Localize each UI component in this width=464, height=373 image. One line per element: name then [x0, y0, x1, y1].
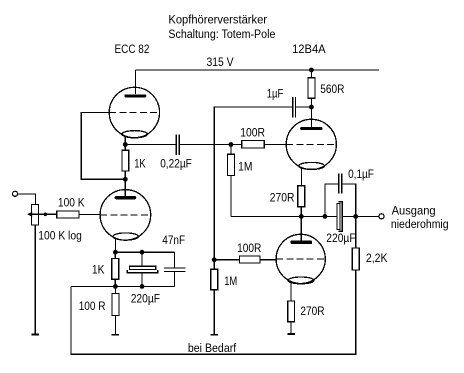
triode V1b grid (dashed) — [100, 214, 151, 216]
triode V1b ECC82 lower-left: envelope — [100, 190, 151, 241]
triode V1b anode bar — [115, 196, 137, 199]
wire 0,22µF to 100R — [180, 144, 242, 146]
node V2 cathode / V3 anode — [299, 214, 304, 219]
wire cathode node across to 47nF — [115, 252, 174, 268]
resistor 100 K (series grid) — [57, 211, 79, 218]
wire bei Bedarf loop — [71, 270, 356, 354]
node 220µF left — [323, 214, 328, 219]
node A (V1a cathode) — [123, 142, 128, 147]
wire V1b anode lead — [124, 179, 126, 196]
resistor 100R (lower grid stopper) — [240, 256, 260, 263]
wire V1a grid to node B (SRPP connection) — [81, 113, 125, 180]
wire V2 cathode lead — [300, 168, 302, 186]
triode V2 anode bar — [300, 127, 322, 130]
node B (V1b anode / 1K bottom) — [123, 177, 128, 182]
input terminal — [12, 191, 17, 196]
triode V2 12B4A upper-right: envelope — [286, 119, 336, 169]
svg-text:1K: 1K — [92, 263, 105, 277]
resistor 2,2K — [352, 216, 359, 270]
wire V1b cathode lead — [114, 239, 116, 253]
wire V1a cathode lead — [124, 137, 126, 144]
node 1M upper tap — [229, 142, 234, 147]
node 220µF(bl) top — [140, 250, 145, 255]
svg-text:47nF: 47nF — [162, 233, 185, 247]
ground below 270R — [287, 333, 294, 335]
svg-text:1M: 1M — [238, 159, 252, 173]
svg-text:220µF: 220µF — [131, 292, 160, 306]
svg-text:12B4A: 12B4A — [292, 42, 326, 56]
svg-text:100 R: 100 R — [79, 299, 106, 313]
svg-text:1µF: 1µF — [267, 87, 284, 101]
svg-text:100 K log: 100 K log — [38, 229, 82, 243]
wire V3 cathode lead — [290, 283, 292, 301]
ground below 100 R — [112, 334, 119, 336]
triode V1b cathode — [113, 233, 138, 240]
resistor 1K (upper, SRPP) — [122, 145, 129, 180]
svg-text:Ausgang: Ausgang — [392, 203, 436, 217]
node 560R bottom / V2 anode — [309, 105, 314, 110]
wire V1a anode lead — [135, 70, 137, 94]
capacitor 220µF (cathode bypass, electrolytic) — [127, 252, 158, 286]
capacitor 47nF — [164, 268, 185, 286]
triode V1a ECC82 upper-left: envelope — [109, 87, 159, 137]
potentiometer 100K log — [27, 204, 57, 225]
svg-text:100 K: 100 K — [58, 195, 85, 209]
resistor 1M (upper, bootstrap grid leak) — [228, 145, 235, 217]
svg-text:ECC 82: ECC 82 — [115, 42, 150, 56]
wire node to 100R lower — [214, 259, 239, 261]
svg-text:100R: 100R — [237, 241, 261, 255]
svg-text:bei Bedarf: bei Bedarf — [188, 341, 237, 355]
wire input to potentiometer — [17, 194, 35, 205]
node 100R top — [113, 284, 118, 289]
svg-text:2,2K: 2,2K — [366, 251, 388, 265]
resistor 270R (upper cathode) — [298, 186, 305, 217]
svg-text:270R: 270R — [300, 304, 324, 318]
capacitor 0,1µF — [339, 173, 342, 193]
wire node A to coupling cap — [125, 144, 176, 146]
svg-text:220µF: 220µF — [326, 231, 355, 245]
wire 100R to V3 grid — [260, 259, 277, 261]
svg-text:100R: 100R — [240, 126, 265, 140]
wire pot to ground — [34, 225, 36, 335]
ground below pot — [32, 334, 39, 336]
ground below 1M — [211, 334, 218, 336]
triode V1a cathode — [122, 131, 147, 138]
wire 100R to V2 grid — [264, 144, 286, 146]
node 220µF(bl) bottom — [140, 284, 145, 289]
svg-text:270R: 270R — [270, 191, 295, 205]
wire bottom node row — [71, 285, 174, 287]
capacitor 0,22µF — [176, 134, 179, 155]
node lower grid — [212, 257, 217, 262]
svg-text:Kopfhörerverstärker: Kopfhörerverstärker — [168, 12, 267, 26]
capacitor 1µF — [293, 97, 296, 117]
svg-text:0,1µF: 0,1µF — [348, 167, 374, 181]
node 560R top — [309, 68, 314, 73]
triode V2 grid (dashed) — [286, 143, 336, 145]
wire V2 anode lead — [310, 107, 312, 127]
resistor 560R — [308, 70, 315, 107]
svg-text:1K: 1K — [134, 156, 146, 170]
wire output rail — [231, 215, 379, 217]
resistor 1K (lower cathode bias) — [112, 252, 119, 286]
triode V1a anode bar — [124, 94, 146, 97]
svg-text:560R: 560R — [320, 82, 344, 96]
svg-text:315 V: 315 V — [207, 55, 235, 69]
triode V3 grid (dashed) — [276, 258, 325, 260]
resistor 100R (upper grid stopper) — [242, 141, 265, 148]
wire phase drive rail (1µF to lower grid node) — [214, 107, 292, 260]
triode V1a grid (dashed) — [109, 112, 159, 114]
resistor 1M (lower grid leak) — [211, 260, 218, 335]
triode V3 cathode — [288, 277, 314, 284]
node 220µF right — [353, 214, 358, 219]
wire 100K to V1b grid — [79, 214, 100, 216]
output terminal — [379, 214, 384, 219]
triode V3 12B4A lower-right: envelope — [276, 234, 325, 284]
wire 1µF to 560R node — [296, 106, 311, 108]
capacitor 220µF output (electrolytic) — [337, 202, 343, 232]
triode V2 cathode — [299, 162, 325, 169]
resistor 270R (lower cathode) — [288, 301, 295, 334]
wire 0,1µF bypass loop — [325, 184, 356, 217]
svg-text:Schaltung: Totem-Pole: Schaltung: Totem-Pole — [168, 27, 275, 41]
svg-text:niederohmig: niederohmig — [391, 217, 449, 231]
wire 315V supply rail — [136, 69, 380, 71]
wire V3 anode lead — [300, 216, 302, 240]
triode V3 anode bar — [291, 241, 313, 245]
svg-text:0,22µF: 0,22µF — [160, 156, 192, 170]
resistor 100 R (bei Bedarf) — [112, 286, 119, 334]
svg-text:1M: 1M — [224, 274, 237, 288]
node V1b cathode — [113, 250, 118, 255]
